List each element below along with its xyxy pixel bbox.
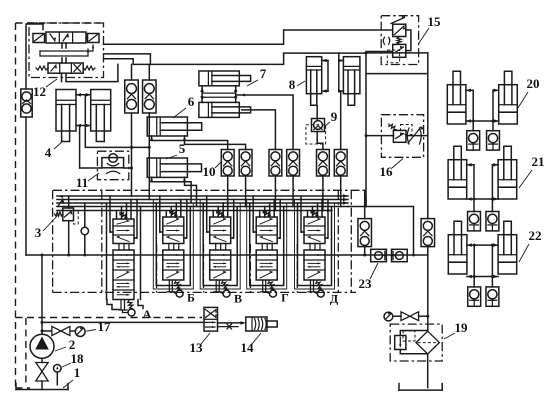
wire 20 bottom cross: [466, 119, 499, 123]
cylinder 7 upper: [199, 71, 251, 86]
wire mid link to pair TL-2: [132, 146, 150, 148]
damper unit 11 dashed box: [97, 151, 128, 180]
wire 15 right loop: [406, 30, 411, 51]
label 12: [33, 79, 57, 99]
wire top line D: [133, 53, 366, 64]
tank boundary dashed left: [15, 23, 17, 388]
wire 20 check stems: [473, 121, 493, 131]
relief 3 pilot dash: [74, 211, 79, 225]
wire cyl4 drop A: [79, 126, 81, 169]
wire TL-2 stem down: [148, 113, 150, 200]
wire top line B: [104, 54, 151, 65]
wire left frame top corner: [26, 24, 43, 89]
node pump tee: [41, 330, 44, 333]
label 15: [419, 14, 441, 43]
relief valve 15 lower: [393, 44, 406, 57]
svg-text:4: 4: [45, 145, 52, 160]
letter D: [330, 292, 339, 306]
wire node down to bus: [365, 53, 367, 207]
bank dash-dot verticals: [102, 190, 351, 292]
wire bowtie to main: [419, 315, 428, 317]
label 22: [519, 228, 542, 262]
wire cyl8 top cross: [322, 59, 344, 63]
tank 19 bracket: [399, 384, 442, 391]
bypass valve 19 dashed: [403, 331, 415, 341]
node bus extension: [412, 254, 415, 257]
cylinder 21 left: [448, 146, 467, 199]
label 3: [35, 215, 58, 240]
check valve under 22 right: [486, 287, 499, 306]
node col R1: [363, 254, 366, 257]
spring 12b right: [83, 66, 95, 70]
directional valve V (bank): [200, 196, 240, 297]
wire 12 internal lower: [40, 49, 89, 56]
svg-text:11: 11: [76, 175, 88, 190]
wire 13 drain with X: [218, 324, 239, 329]
wire 12 pilot stems: [62, 43, 66, 63]
label 6: [173, 94, 195, 118]
arc symbols 15: [383, 37, 390, 44]
wire 21 check stems: [474, 199, 492, 212]
wire cyl8 drop: [316, 106, 318, 120]
bus bottom line: [26, 254, 428, 256]
cylinder 20 left: [447, 71, 466, 124]
dashed pilot 16: [401, 125, 413, 135]
filter block 19 dash-dot box: [390, 324, 442, 361]
wire 10a stems: [228, 176, 246, 211]
wire col R1 down: [364, 247, 366, 255]
filter 19 diamond: [416, 331, 439, 354]
label 21: [519, 154, 545, 188]
pilot directional valve 12b body: [48, 63, 83, 73]
wire 21 top-right port: [492, 163, 498, 167]
wire pump riser: [41, 255, 43, 334]
svg-text:17: 17: [98, 319, 112, 334]
wire cyl4 top cross: [76, 93, 91, 97]
svg-text:6: 6: [188, 94, 195, 109]
cylinder 4 right: [91, 90, 111, 142]
svg-text:19: 19: [455, 320, 469, 335]
tank 1 bottom: [16, 384, 68, 390]
wire 21 link verticals: [474, 165, 492, 199]
wire 9 to 10c: [317, 132, 323, 150]
bus line 3: [57, 201, 348, 205]
label 1: [63, 365, 80, 388]
relief valve 15 upper pilot arrow: [391, 16, 406, 24]
tank boundary dashed bottom-left horizontal: [16, 317, 203, 319]
wire 21 bottom cross: [467, 197, 498, 201]
wire top line C: [104, 59, 134, 65]
wire 22 bottom cross: [467, 275, 498, 279]
cylinder 4 left: [56, 90, 76, 142]
check valve pair 10c-2: [334, 150, 347, 177]
wire left frame lower: [25, 117, 27, 255]
solenoid box 12a left: [33, 34, 45, 43]
bank dash-dot left vertical: [52, 190, 54, 292]
svg-text:14: 14: [241, 340, 255, 355]
wire 12 lower pilot out: [62, 64, 118, 81]
cylinder 5: [147, 158, 201, 177]
node drain ball: [83, 254, 86, 257]
svg-text:18: 18: [71, 351, 85, 366]
dashed pilot box 15: [387, 50, 399, 63]
wire main vertical mid: [427, 247, 429, 317]
spring 16: [389, 124, 396, 130]
valve 13: [204, 307, 218, 331]
wire drop to check pair TL-2: [148, 64, 150, 80]
breather 18: [54, 365, 62, 385]
node filter line: [426, 315, 429, 318]
cylinder 21 right: [498, 146, 517, 199]
wire cyl7 cross a: [202, 92, 236, 94]
relief valve 15 upper: [393, 24, 406, 36]
label 9: [325, 109, 338, 126]
letter B: [187, 291, 195, 305]
wire cyl7 feed: [236, 94, 293, 150]
directional valve A (bank): [107, 196, 144, 316]
wire 22 link verticals: [474, 245, 492, 276]
bus line 5: [57, 209, 332, 213]
spring 12a right: [86, 36, 88, 39]
relief valve block 15 dash-dot box: [381, 16, 418, 65]
wire cyl8 ladder verticals: [328, 61, 339, 92]
svg-text:9: 9: [331, 109, 338, 124]
wire filter above diamond: [427, 316, 429, 331]
throttle block 16 dash-dot box: [381, 115, 423, 158]
wire 12 internal upper: [40, 45, 94, 51]
node at 366,53: [365, 51, 368, 54]
wire bus extension right: [348, 207, 414, 256]
directional valve G (bank): [247, 196, 287, 297]
wire cyl4 drop B: [85, 126, 131, 148]
wire cyl7 link right: [234, 86, 238, 103]
svg-text:3: 3: [35, 225, 42, 240]
tank boundary dashed bottom segment: [16, 387, 31, 389]
check valve 23b: [392, 249, 408, 261]
wire 20 top-left port: [466, 89, 473, 93]
svg-text:В: В: [234, 292, 242, 306]
node valve3: [67, 254, 70, 257]
wire 10c stems: [323, 176, 341, 211]
wire 10b stems: [275, 176, 293, 211]
check valve 23a: [371, 249, 387, 261]
pilot valve block 12 enclosure dash-dot: [29, 23, 104, 78]
wire 20 top-right port: [493, 89, 499, 93]
node TL stems: [130, 146, 151, 149]
tank boundary dashed top: [16, 22, 101, 24]
wire cyl6 feed 1: [152, 136, 228, 150]
suction valve triangles: [36, 363, 48, 382]
check valve under 22 left: [468, 287, 481, 306]
svg-text:Б: Б: [187, 291, 195, 305]
check valve 9: [312, 119, 325, 132]
wire main vertical right: [427, 53, 429, 219]
label 17: [86, 319, 111, 334]
wire suction to tank: [41, 381, 43, 390]
wire bowtie to gauge: [71, 330, 76, 332]
spring 12b left: [36, 66, 48, 70]
check valve pair 10a-1: [221, 150, 234, 177]
cylinder 22 right: [498, 221, 517, 274]
tank boundary dashed inner vertical: [25, 318, 27, 387]
label 4: [45, 141, 63, 160]
wire cyl5 feed 2: [185, 177, 197, 206]
wire drop to check pair TL-1: [131, 64, 133, 80]
label 2: [55, 337, 75, 352]
node long line: [41, 321, 44, 324]
wire left big vertical bottom: [365, 196, 367, 207]
label 13: [190, 333, 211, 355]
wire through 11: [80, 167, 132, 169]
check valve pair 10a-2: [239, 150, 252, 177]
pump 2: [30, 334, 54, 358]
label 8: [289, 77, 305, 92]
check valve under 20 left: [467, 131, 480, 150]
wire cyl7 link left: [200, 86, 204, 103]
check valve pair unit TL-2: [143, 80, 157, 113]
wire 13 to 14: [218, 321, 246, 325]
label 18: [62, 351, 84, 367]
svg-text:20: 20: [527, 76, 540, 91]
wire cyl8 feed stem: [338, 53, 340, 60]
wire gauge to bowtie 19: [393, 315, 401, 317]
wire frame inner horizontal: [366, 73, 428, 75]
svg-text:7: 7: [260, 66, 267, 81]
pressure gauge 17: [75, 327, 85, 337]
wire main top horizontal: [366, 52, 428, 54]
svg-text:21: 21: [532, 154, 545, 169]
wire cyl5 port arrows: [150, 177, 187, 182]
svg-text:10: 10: [203, 164, 216, 179]
relief 3 arrow: [58, 199, 64, 206]
wire 3 down: [68, 221, 70, 255]
svg-text:А: А: [143, 307, 152, 321]
solenoid box 12a right: [88, 34, 100, 43]
wire 20 link verticals: [473, 90, 493, 121]
wire TL-1 stem down: [131, 113, 133, 196]
svg-text:1: 1: [74, 365, 81, 380]
wire 22 check stems: [474, 277, 492, 287]
check valve column R1: [358, 219, 372, 247]
svg-text:16: 16: [380, 164, 394, 179]
shutoff valve pump line: [52, 326, 70, 335]
svg-text:2: 2: [69, 337, 76, 352]
wire long line to 13: [42, 321, 204, 323]
flow control unit left: [21, 89, 32, 117]
letter G: [281, 291, 289, 305]
wire cyl8 to 10c-2: [340, 91, 342, 149]
cylinder 8 right: [343, 57, 360, 105]
wire pump suction: [41, 358, 43, 362]
svg-text:13: 13: [190, 340, 204, 355]
label 19: [444, 320, 468, 339]
svg-text:Г: Г: [281, 291, 289, 305]
label 11: [76, 173, 99, 190]
svg-text:15: 15: [428, 14, 442, 29]
svg-text:12: 12: [33, 84, 46, 99]
directional valve D (bank): [295, 196, 335, 297]
wire cyl6 port arrows: [150, 136, 187, 141]
node pump riser: [41, 254, 44, 257]
directional valve B (bank): [153, 196, 193, 297]
wire through 16: [365, 134, 428, 137]
label 14: [241, 333, 262, 355]
svg-text:22: 22: [529, 228, 542, 243]
bus dash-dot line: [53, 189, 368, 191]
check valve column R2 (inline): [421, 219, 435, 247]
wire cyl5 feed 1: [152, 177, 192, 203]
spring 15: [397, 37, 401, 44]
wire top line A: [104, 30, 393, 44]
wire frame drop into box 12: [42, 24, 44, 30]
cylinder 8 left: [306, 57, 321, 105]
wire cyl6 feed 2: [185, 136, 246, 150]
wire pump to bowtie: [42, 330, 51, 332]
spring 3: [55, 212, 63, 216]
cylinder 7 lower: [199, 102, 251, 117]
wire cyl4 bottom cross: [76, 124, 91, 128]
relief valve 16: [393, 130, 406, 142]
bus line 2: [57, 198, 348, 202]
wire col R1 up: [364, 190, 366, 218]
letter A: [143, 307, 152, 321]
wire cyl7 lower feed: [242, 110, 276, 150]
cylinder 6: [147, 117, 202, 136]
wire 3 up: [68, 196, 70, 208]
wire filter to tank: [427, 354, 429, 388]
letter V: [234, 292, 242, 306]
check valve pair 10b-2: [287, 150, 300, 177]
wire cyl4 vertical link: [84, 95, 86, 126]
node 11 junction: [130, 167, 133, 170]
wire 15 out: [366, 51, 393, 53]
bank dash-dot bottom: [53, 291, 356, 293]
bus line 1: [57, 194, 348, 198]
wire 21 top-left port: [467, 163, 474, 167]
wire 22 top cross: [467, 243, 498, 247]
drain ball circle: [81, 203, 88, 255]
bypass valve 19: [395, 336, 406, 350]
pilot directional valve 12a body: [46, 32, 86, 43]
shutoff valve filter line: [401, 312, 419, 321]
damper unit 11 symbol: [102, 154, 124, 174]
svg-text:Д: Д: [330, 292, 339, 306]
gauge 19 line: [384, 312, 393, 321]
check valve pair 10c-1: [317, 150, 330, 177]
svg-text:8: 8: [289, 77, 296, 92]
check valve under 21 right: [486, 212, 499, 231]
label 23: [359, 263, 379, 291]
label 16: [380, 159, 404, 180]
wire cyl8 bottom cross: [322, 89, 344, 93]
check valve pair unit TL-1: [125, 80, 139, 113]
wire cyl7 cross b: [202, 96, 236, 98]
label 10: [203, 161, 223, 179]
check valve pair 10b-1: [269, 150, 282, 177]
cylinder 20 right: [499, 71, 518, 124]
label 5: [166, 141, 186, 159]
cylinder 22 left: [448, 221, 467, 274]
valve 14 with spring: [246, 317, 277, 331]
check valve under 21 left: [468, 212, 481, 231]
wire filter bypass loop: [400, 331, 427, 354]
label 20: [518, 76, 540, 108]
check valve 9 dashed box: [306, 125, 326, 144]
relief valve 3: [63, 208, 74, 221]
check valve under 20 right: [487, 131, 500, 150]
throttle 16: [407, 126, 423, 144]
bus line 4: [57, 206, 348, 208]
label 7: [247, 66, 267, 86]
